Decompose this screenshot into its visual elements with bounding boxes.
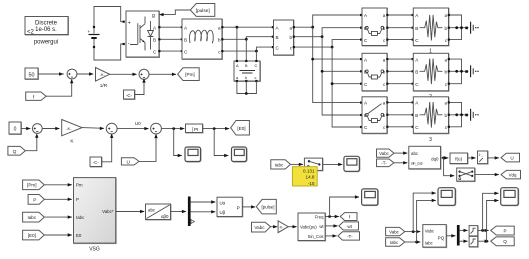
svg-text:abc: abc [411,151,419,156]
abc to dq0 transform [409,146,441,169]
wire tap C down to capacitor [255,51,257,61]
From tag [pulse] (top) [190,4,215,17]
svg-text:PQ: PQ [438,235,445,240]
wire load3 a,c loop [449,102,462,126]
svg-text:+: + [128,21,131,27]
wire meas b to breaker1 B [294,28,363,37]
wire dq0 branch to selector [444,158,455,176]
svg-text:P: P [33,197,36,203]
wire PLL wt to wt tag [325,225,338,227]
PI controller [186,124,204,133]
wire load3 b to ground [449,114,469,116]
wire bus c to breaker2 C [332,83,362,85]
wire IGBT B to inductor B [159,38,182,40]
ground 3 [471,109,479,121]
svg-text:0: 0 [14,127,17,133]
constant -C- (E0 offset) [90,157,102,167]
wire meas a to breaker1 A [294,15,363,27]
wire Iabc to PQ [405,241,421,243]
VSG subsystem block [74,178,117,253]
svg-text:a: a [444,101,447,106]
PQ measurement block [423,225,447,248]
wire filter to U [488,157,499,159]
wire f(u) to filter [468,157,476,159]
wire Iabc to manual switch [291,163,303,165]
wire bus a drop to rows 2,3 [313,27,362,102]
svg-text:[pulse]: [pulse] [196,8,210,14]
node Vabc monitor [412,230,415,233]
From tag Vabc (dq input) [377,149,395,157]
svg-text:U: U [126,159,130,165]
gain K [62,120,82,145]
svg-text:Sin_Cos: Sin_Cos [308,234,324,239]
node capacitor neutral [245,92,248,95]
coil icon [190,30,214,43]
svg-text:a: a [289,25,292,30]
wire branch to scope E2 [214,129,228,156]
svg-text:f(u): f(u) [455,157,462,162]
three-phase capacitor bank C1 [234,60,261,82]
svg-text:Iabc: Iabc [27,215,36,220]
sum S3 [32,124,42,134]
ground 2 [471,65,479,77]
svg-text:[E0]: [E0] [237,126,245,131]
svg-text:P: P [76,197,79,202]
wire Freq branch to scope F1 [330,197,359,217]
wire IGBT A to inductor A [159,26,182,28]
wire sum2 to [Pm] [149,73,176,75]
From tag Q [8,146,25,155]
svg-text:E0: E0 [76,233,82,238]
svg-text:b: b [444,70,447,75]
manual switch [304,158,323,171]
svg-text:U: U [510,156,513,161]
wire tap B down to capacitor [245,39,247,61]
wire meas c to breaker1 C [294,40,363,48]
svg-text:a: a [383,101,386,106]
wire Vabc to PQ [405,231,421,233]
svg-text:dq0: dq0 [431,156,439,161]
wire inductor c to meas C [222,47,274,51]
svg-text:wt: wt [347,224,352,229]
node tap C [255,50,258,53]
svg-text:Uβ: Uβ [220,210,226,215]
wire branch to scope E1 [174,129,182,156]
wire pulse to g [163,10,191,15]
wire 0 to sum3 [21,128,30,130]
wire PLL Sin_Cos to -T- tag [325,235,337,237]
three-phase load 3 [413,97,449,143]
svg-text:B: B [184,38,187,43]
wire load2 b to ground [449,70,469,72]
node bus c [331,46,334,49]
wire load1 a,c loop [449,15,462,40]
wire sum1 to gain 1/R [77,73,93,75]
svg-text:-T-: -T- [381,161,387,166]
svg-text:Vabc(pu): Vabc(pu) [300,224,317,229]
abc to alpha-beta transform [146,204,172,220]
svg-text:[E0]: [E0] [28,233,36,238]
svg-text:B: B [276,35,279,40]
wire breaker3 to load3 (a,b,c) [387,102,413,126]
From tag Vabc (PQ) [386,227,405,235]
svg-text:Iabc: Iabc [76,215,85,220]
svg-text:-C-: -C- [126,93,133,98]
wire PQ to demux2 [446,235,455,237]
svg-text:c: c [255,76,257,80]
svg-text:αβ0: αβ0 [161,214,169,219]
node Freq [328,215,331,218]
svg-text:Iabc: Iabc [425,241,433,246]
wire demux2 to filter Q [460,240,468,242]
Goto tag Q [491,237,515,246]
svg-text:Freq: Freq [315,214,324,219]
svg-text:1⋅˳: 1⋅˳ [479,153,483,157]
svg-text:˂2: ˂2 [27,30,35,36]
Goto tag P [491,226,515,235]
svg-text:⌠PI: ⌠PI [191,127,198,133]
wire [E0] to VSG [44,234,72,236]
wire sum5 to PI [161,128,184,130]
sum S2 [139,69,149,79]
three-phase V-I measurement block [274,20,295,56]
svg-text:Discrete: Discrete [35,21,58,27]
svg-text:B: B [415,113,418,118]
scope E1 [185,147,201,162]
svg-text:U0: U0 [135,121,141,126]
scope PQ2 (P,Q) [501,188,519,206]
Goto tag U [501,153,520,162]
wire gain K to sum4 [82,127,104,130]
From tag U [121,158,139,166]
three-phase breaker 1 (closed) [362,8,388,46]
wire inductor b to meas B [222,37,274,40]
svg-text:Pm: Pm [76,183,83,188]
node Iabc monitor [415,241,418,244]
wire f to sum1 [46,81,72,96]
PLL block [298,213,326,241]
svg-text:[Pm]: [Pm] [185,72,194,77]
From tag [Pm] [23,180,45,190]
svg-text:Q: Q [503,239,507,244]
IGBT icon [130,17,145,51]
wire inductor a to meas A [222,26,274,28]
wire battery bottom loop [94,44,124,60]
node bus b [321,35,324,38]
powergui block [25,17,69,46]
svg-text:1e-06 s.: 1e-06 s. [35,27,57,33]
node row2 a [311,58,314,61]
From tag f [26,92,46,100]
wire -C- to sum2 [135,81,145,95]
sum S1 [67,69,77,79]
node row2 c [331,82,334,85]
svg-text:B: B [415,70,418,75]
three-phase inductor block L1 [182,19,223,60]
svg-text:[pulse]: [pulse] [262,205,275,210]
demux unused output [191,220,194,224]
wire demux2 to filter P [460,229,468,231]
wire bus c drop to rows 2,3 [332,47,362,127]
svg-text:b: b [444,113,447,118]
svg-text:P: P [237,205,240,211]
wire Iabc to VSG [44,216,72,218]
Goto tag f [340,213,357,221]
wire Vabc to gain pu [271,226,278,228]
svg-text:[Pm]: [Pm] [27,183,36,188]
Goto tag wt [339,222,359,230]
svg-text:-K-: -K- [66,126,72,131]
wire VSG to abc-ab0 [116,211,145,213]
IGBT bridge U1 [126,11,160,58]
svg-text:Iabc: Iabc [275,162,284,167]
svg-text:abc: abc [148,208,156,213]
svg-text:b: b [289,35,292,40]
Goto tag -T- [338,232,360,240]
svg-text:0.131: 0.131 [303,168,315,173]
Fcn f(u) [450,153,468,164]
svg-text:b: b [444,26,447,31]
From tag -T- (sin_cos input) [377,159,395,167]
svg-text:50: 50 [29,72,35,78]
wire gain to sum2 [110,73,137,75]
node Q [485,240,488,243]
From tag Vabc (PLL input) [252,222,271,232]
wire U to sum5 [139,136,156,161]
svg-text:b: b [245,76,247,80]
wire abc-ab0 to demux [171,211,187,213]
node row2 b [321,70,324,73]
svg-text:C: C [255,64,258,68]
filter Q (mean) [469,236,478,247]
svg-text:-15: -15 [308,181,315,186]
svg-text:Q: Q [13,149,17,155]
selector (dq swap) [457,168,476,182]
sum S5 [151,123,162,134]
demux2 [457,225,460,246]
wire demux Ua [191,201,216,203]
svg-text:B: B [415,26,418,31]
svg-text:a: a [444,57,447,62]
SVPWM block [217,197,243,217]
svg-text:14.8: 14.8 [306,175,315,180]
wire -T- to abc-dq0 [394,162,407,164]
scope F1 (frequency) [362,189,379,206]
From tag P [28,195,44,205]
wire [Pm] to VSG [44,184,72,186]
svg-text:a: a [383,13,386,18]
wire gain to PLL [288,226,296,228]
From tag Iabc [23,212,45,222]
wire bus a to breaker2 A [313,58,362,60]
node after PI [213,127,216,130]
wire demux Ub [191,211,216,213]
svg-text:1/R: 1/R [100,83,108,89]
wire breaker2 to load2 (a,b,c) [387,59,413,84]
wire bus b to breaker2 B [322,70,362,72]
three-phase load 2 [413,53,449,100]
gain 1/Vnom [278,221,288,233]
three-phase breaker 2 (closed) [362,53,388,91]
three-phase breaker 3 (open) [362,97,388,134]
svg-text:Vabc: Vabc [389,230,399,235]
scope PQ1 (Vabc,Iabc) [438,188,456,206]
wire P up to scope PQ2 [483,193,499,230]
svg-text:a: a [444,13,447,18]
wire battery top loop [94,7,124,28]
svg-text:-K-: -K- [100,72,106,77]
constant -C- (Pm offset) [124,90,136,100]
svg-text:-T-: -T- [347,234,353,239]
wire PLL Freq to f tag [325,216,339,218]
From tag Iabc (monitor) [271,160,291,169]
filter P (mean) [469,226,478,237]
svg-text:g: g [152,13,155,19]
svg-text:-K-: -K- [279,225,283,229]
svg-text:+: + [88,29,91,34]
svg-text:P: P [503,228,506,233]
wire sum4 to sum5 with U0 label [117,128,148,130]
svg-text:Uα: Uα [220,201,226,206]
wire load1 b to ground [449,27,469,29]
svg-text:VSG: VSG [89,247,100,253]
wire -C- to sum4 [102,136,112,162]
wire breaker1 to load1 (a,b,c) [387,15,413,40]
wire filter P to P tag [478,229,489,231]
wire 50 to sum1 [38,73,64,75]
wire bus b drop to rows 2,3 [322,37,362,115]
wire selector to Vdq [475,174,499,176]
diode D1 [148,21,154,50]
wire Vabc to abc-dq0 [394,152,407,154]
scope E2 [232,147,248,162]
Goto tag [Pm] [178,68,200,81]
wire switch to scope I1 [323,163,343,165]
wire SVPWM to [pulse] [242,206,255,208]
svg-text:b: b [218,38,221,43]
From tag [E0] [23,230,45,240]
constant 50 [25,68,39,80]
Goto tag [E0] [231,121,250,136]
node dq0 [442,157,445,160]
DC voltage source [88,7,125,61]
svg-text:Vdq: Vdq [509,173,517,178]
display (yellow) [292,167,317,186]
node tap A [236,26,239,29]
wire load2 a,c loop [449,59,462,84]
node tap B [245,38,248,41]
wire dq0 to f(u) [441,157,449,159]
three-phase load 1 [413,8,449,55]
svg-text:sin_cos: sin_cos [411,161,423,166]
svg-text:a: a [383,57,386,62]
battery symbol [93,27,95,47]
scope I1 [344,156,360,172]
constant 0 [9,122,22,135]
wire capacitor neutral [237,81,257,94]
wire Vabc up to scope PQ1 [413,193,436,232]
wire Q up to scope PQ2 [487,201,499,242]
svg-text:-C-: -C- [93,160,100,165]
sum S4 [106,123,117,134]
svg-text:powergui: powergui [34,40,58,46]
node bus a [311,26,314,29]
wire Q to sum3 [25,136,37,151]
lowpass filter block [478,151,489,164]
From tag Iabc (PQ) [386,238,405,247]
wire PI to [E0] [203,128,230,130]
svg-text:Vabc*: Vabc* [102,209,114,214]
svg-text:3: 3 [429,137,432,143]
wire filter Q to Q tag [478,240,489,242]
svg-text:Vabc: Vabc [425,228,434,233]
node P [481,229,484,232]
wire sum3 to gain K [42,128,59,130]
gain 1/R [96,68,110,90]
svg-text:Iabc: Iabc [390,240,399,245]
Goto tag [pulse] [256,199,276,214]
svg-text:B: B [153,38,156,43]
svg-text:a: a [218,25,221,30]
node after sum5 [172,127,175,130]
Goto tag Vdq [501,170,521,179]
wire IGBT C to inductor C [159,50,182,52]
svg-text:Vabc: Vabc [379,151,389,156]
wire P to VSG [44,198,72,200]
ground 1 [471,22,479,34]
demux (alpha beta 0) [188,197,191,227]
wire Iabc up to scope PQ1 [417,200,436,242]
svg-text:Vabc: Vabc [254,225,265,230]
wire tap A down to capacitor [236,27,238,61]
